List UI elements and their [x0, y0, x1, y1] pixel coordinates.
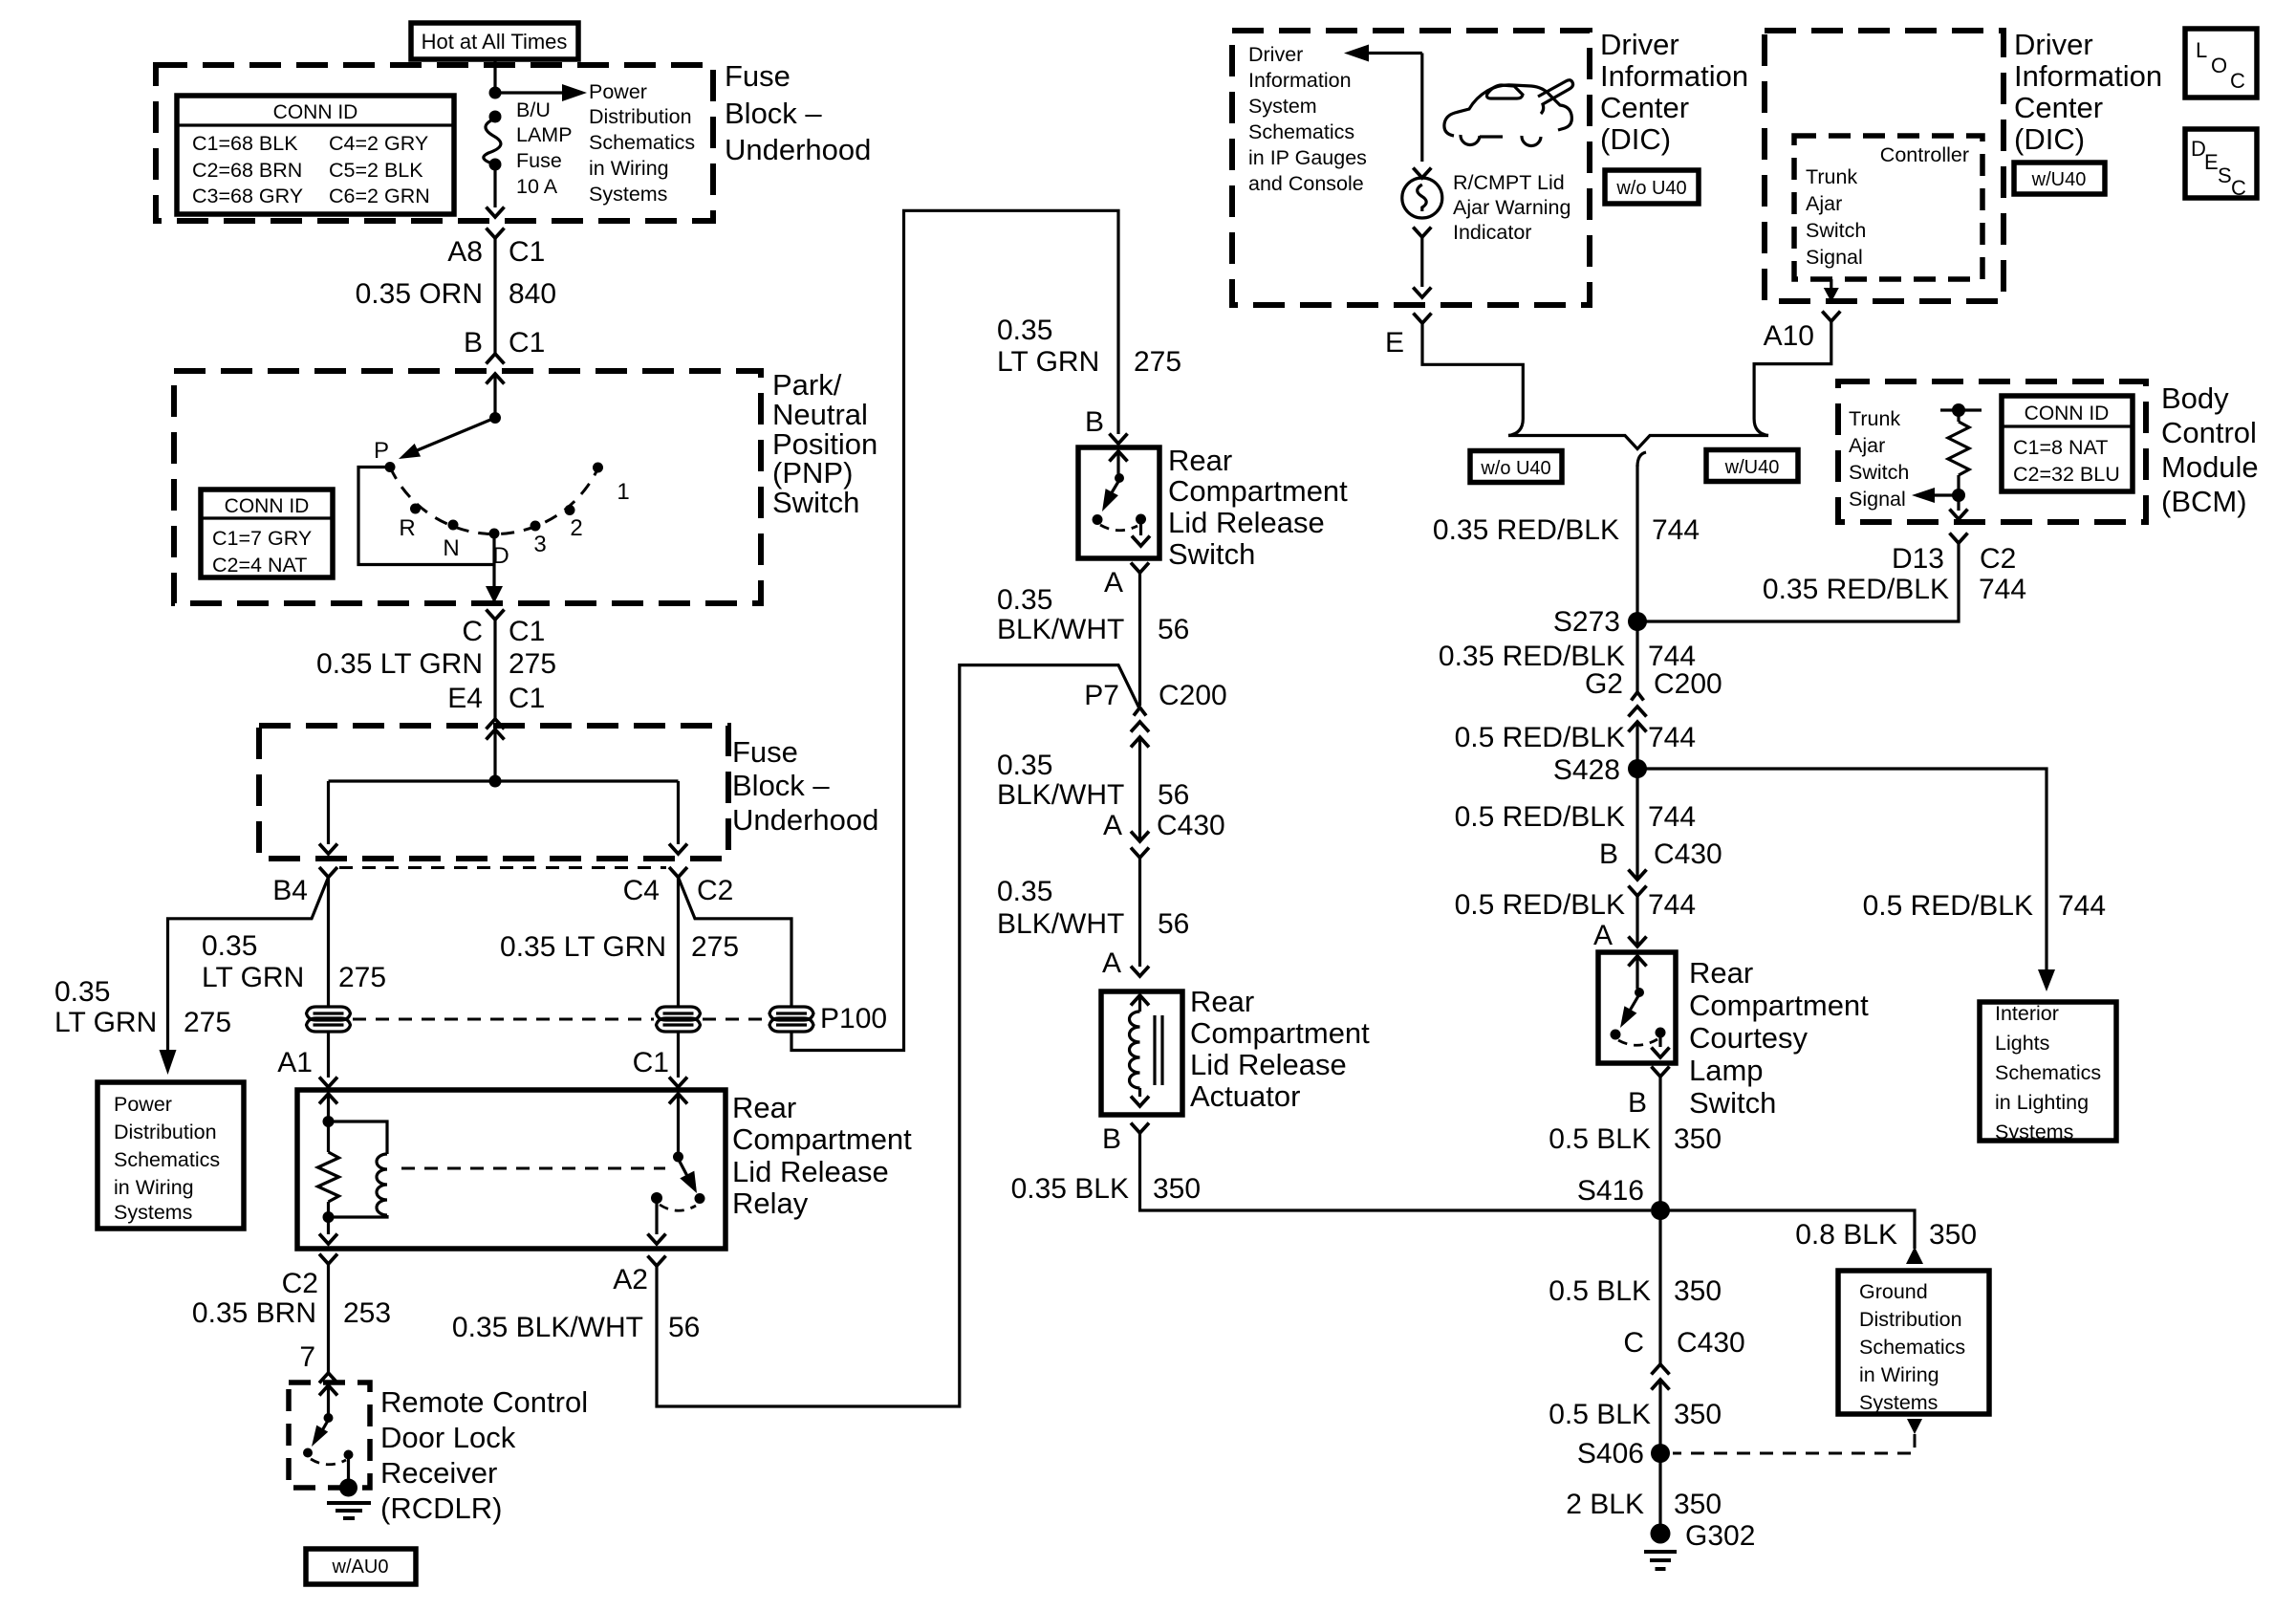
switch contact right [1136, 514, 1146, 525]
svg-text:Module: Module [2161, 450, 2259, 484]
svg-text:Rear: Rear [1689, 956, 1753, 990]
svg-text:C200: C200 [1159, 680, 1227, 711]
switch travel arc dashed [1100, 525, 1137, 531]
fuse block underhood dashed box (top) [156, 65, 713, 221]
svg-text:Control: Control [2161, 416, 2257, 449]
svg-text:0.35 BLK/WHT: 0.35 BLK/WHT [452, 1312, 643, 1343]
svg-text:0.5 RED/BLK: 0.5 RED/BLK [1455, 801, 1625, 833]
switch arm [1111, 480, 1119, 494]
fork at actuator A [1131, 967, 1149, 977]
svg-text:350: 350 [1674, 1489, 1722, 1520]
svg-text:S273: S273 [1553, 606, 1620, 638]
splice S416 [1651, 1201, 1670, 1220]
svg-text:744: 744 [1979, 574, 2026, 605]
switch entry arrow [1110, 451, 1128, 462]
RCDLR switch pivot node [324, 1413, 334, 1423]
svg-text:Hot at All Times: Hot at All Times [422, 30, 568, 54]
relay switch travel arc dashed [660, 1205, 696, 1210]
PNP pivot node [489, 412, 501, 424]
svg-text:Power: Power [589, 80, 647, 103]
wire grommet to relay C1 [677, 1032, 680, 1078]
switch box Rear Compartment Courtesy Lamp Switch [1598, 952, 1676, 1063]
svg-text:B/U: B/U [516, 98, 551, 121]
connector P100 dashed line [353, 1018, 654, 1021]
PNP contact D [489, 529, 500, 539]
svg-text:Rear: Rear [732, 1091, 796, 1124]
svg-text:0.35 LT GRN: 0.35 LT GRN [316, 648, 483, 680]
svg-text:Information: Information [2014, 59, 2162, 93]
fuse block 2 right leg [677, 781, 680, 844]
splice S406 [1651, 1444, 1670, 1463]
svg-text:744: 744 [2058, 890, 2106, 922]
branch wire to power distribution reference [168, 878, 329, 1053]
fork below DIC E [1414, 314, 1432, 324]
ground distribution bottom arrow [1907, 1419, 1922, 1434]
svg-text:B: B [464, 327, 483, 359]
svg-text:BLK/WHT: BLK/WHT [997, 779, 1124, 811]
wire C200 to C430 [1138, 737, 1141, 841]
svg-text:Door Lock: Door Lock [380, 1421, 516, 1454]
S428 branch to interior lights [1637, 769, 2047, 969]
BCM dashed box [1838, 381, 2146, 522]
svg-text:3: 3 [533, 532, 546, 557]
svg-text:B: B [1085, 406, 1104, 438]
svg-text:Ajar: Ajar [1806, 192, 1842, 215]
svg-text:Underhood: Underhood [725, 133, 871, 166]
svg-text:S406: S406 [1577, 1438, 1644, 1469]
actuator box Rear Compartment Lid Release Actuator [1101, 991, 1182, 1115]
svg-text:P100: P100 [820, 1003, 887, 1034]
svg-text:C1: C1 [509, 327, 545, 359]
svg-text:744: 744 [1648, 722, 1696, 753]
svg-text:A8: A8 [447, 236, 483, 268]
svg-text:Distribution: Distribution [589, 105, 692, 128]
LOC key box [2185, 29, 2257, 98]
svg-text:(DIC): (DIC) [1600, 122, 1671, 156]
option box w/o U40 (DIC) [1605, 170, 1699, 204]
svg-text:Lamp: Lamp [1689, 1054, 1764, 1087]
fork into PNP switch [487, 354, 505, 364]
fork into fuse block 2 [487, 719, 505, 729]
svg-text:0.35: 0.35 [202, 930, 257, 962]
car icon [1444, 85, 1571, 136]
relay output wire to A2 [655, 1203, 658, 1234]
svg-text:CONN ID: CONN ID [225, 495, 310, 517]
merge brace w/o U40 w/U40 [1508, 419, 1523, 436]
svg-text:Compartment: Compartment [1689, 989, 1869, 1022]
courtesy switch contact right [1656, 1028, 1666, 1038]
svg-text:Systems: Systems [114, 1201, 192, 1224]
svg-text:744: 744 [1648, 801, 1696, 833]
svg-text:C1=7 GRY: C1=7 GRY [212, 527, 312, 550]
RCDLR ground stem [347, 1455, 350, 1483]
fork below DIC2 A10 [1822, 312, 1840, 322]
svg-text:2 BLK: 2 BLK [1566, 1489, 1644, 1520]
svg-text:CONN ID: CONN ID [273, 101, 358, 123]
svg-text:C1: C1 [633, 1047, 669, 1078]
relay C1 entry arrow [669, 1094, 687, 1104]
svg-text:Switch: Switch [1849, 461, 1909, 484]
svg-text:C3=68 GRY: C3=68 GRY [192, 185, 303, 207]
svg-text:0.5 BLK: 0.5 BLK [1549, 1275, 1651, 1307]
svg-text:P: P [374, 438, 389, 464]
grommet P100 [769, 1007, 813, 1032]
svg-text:10 A: 10 A [516, 175, 558, 198]
courtesy switch contact left [1611, 1030, 1621, 1040]
svg-text:Fuse: Fuse [732, 735, 798, 769]
DIC internal arrow to reference [1420, 54, 1423, 163]
fuse block 2 entry arrow [487, 729, 505, 740]
junction node at fuse feed [489, 87, 502, 99]
svg-text:0.5 RED/BLK: 0.5 RED/BLK [1455, 722, 1625, 753]
svg-text:C1=8 NAT: C1=8 NAT [2013, 436, 2108, 459]
svg-text:C430: C430 [1677, 1327, 1745, 1359]
svg-text:0.8 BLK: 0.8 BLK [1795, 1219, 1897, 1251]
svg-text:Distribution: Distribution [1859, 1308, 1962, 1331]
svg-text:C2=4 NAT: C2=4 NAT [212, 554, 307, 577]
svg-text:0.35: 0.35 [997, 876, 1052, 907]
DIC w/U40 dashed box [1765, 31, 2004, 301]
reference box Interior Lights Schematics in Lighting Systems [1980, 1002, 2116, 1143]
svg-text:(DIC): (DIC) [2014, 122, 2085, 156]
wire C430 to courtesy switch [1635, 896, 1638, 947]
svg-text:275: 275 [691, 931, 739, 963]
svg-text:LT GRN: LT GRN [54, 1007, 157, 1038]
CONN ID table (PNP switch) [201, 490, 333, 577]
svg-text:Park/: Park/ [772, 368, 842, 402]
grommet on C4 wire [657, 1007, 701, 1032]
svg-text:System: System [1248, 95, 1317, 118]
RCDLR dashed box [289, 1382, 370, 1488]
svg-text:0.35 ORN: 0.35 ORN [356, 278, 483, 310]
svg-text:0.35: 0.35 [997, 750, 1052, 781]
wire C4 down to relay C1 [677, 878, 680, 1008]
svg-text:C430: C430 [1157, 810, 1225, 841]
svg-text:Lid Release: Lid Release [732, 1155, 889, 1188]
PNP contact N [448, 520, 459, 531]
svg-text:Switch: Switch [1168, 537, 1255, 571]
wire indicator to DIC edge [1420, 237, 1423, 287]
E wire to merge [1422, 323, 1523, 419]
wire S428 to C430 [1635, 769, 1638, 880]
svg-text:Compartment: Compartment [1190, 1016, 1370, 1050]
fork below BCM D13 [1950, 533, 1968, 544]
connector C2 fork B4 [319, 867, 337, 878]
svg-text:Driver: Driver [2014, 28, 2093, 61]
connector fork below fuse block [487, 229, 505, 239]
connector dashed line between forks [339, 866, 666, 869]
relay box Rear Compartment Lid Release Relay [297, 1090, 726, 1249]
PNP wiper arm to P [415, 418, 495, 451]
svg-text:B4: B4 [272, 875, 308, 906]
fork below switch A [1131, 563, 1149, 574]
actuator solenoid coil [1130, 1012, 1140, 1088]
svg-text:E: E [1385, 327, 1404, 359]
svg-text:Lid Release: Lid Release [1190, 1048, 1347, 1081]
svg-text:275: 275 [509, 648, 556, 680]
svg-text:Rear: Rear [1190, 985, 1254, 1018]
svg-text:Distribution: Distribution [114, 1121, 217, 1143]
svg-text:C1: C1 [509, 236, 545, 268]
svg-text:Remote Control: Remote Control [380, 1385, 588, 1419]
switch contact left [1093, 514, 1103, 525]
fork below relay A2 [648, 1256, 666, 1267]
svg-text:Power: Power [114, 1093, 172, 1116]
relay A1 exit arrow to C2 [319, 1234, 337, 1245]
reference box Power Distribution Schematics in Wiring Systems [97, 1082, 244, 1229]
svg-text:in Lighting: in Lighting [1995, 1091, 2089, 1114]
svg-text:N: N [443, 535, 459, 561]
wire segment 0.35 LT GRN 275 (PNP to fuse block) [493, 620, 496, 719]
svg-text:S: S [2218, 163, 2232, 187]
S416 branch 0.8 BLK 350 to ground distribution [1660, 1210, 1915, 1249]
wire P100 to riser [791, 210, 1118, 1050]
fork at switch B [1110, 434, 1128, 445]
svg-text:Information: Information [1248, 69, 1352, 92]
svg-text:w/U40: w/U40 [2031, 169, 2087, 190]
fuse block 2 internal feed wire [493, 729, 496, 781]
svg-text:(BCM): (BCM) [2161, 485, 2247, 518]
svg-text:253: 253 [343, 1297, 391, 1329]
PNP contact 1 [593, 463, 603, 473]
PNP feed wire to pivot [493, 374, 496, 418]
svg-text:C2: C2 [1980, 543, 2016, 575]
svg-text:Driver: Driver [1600, 28, 1679, 61]
svg-text:350: 350 [1674, 1275, 1722, 1307]
svg-text:0.35: 0.35 [54, 976, 110, 1008]
svg-text:744: 744 [1648, 889, 1696, 921]
svg-text:(PNP): (PNP) [772, 456, 853, 490]
option box w/o U40 (merge) [1470, 451, 1562, 483]
svg-text:S416: S416 [1577, 1175, 1644, 1207]
svg-text:350: 350 [1153, 1173, 1201, 1205]
svg-text:Lights: Lights [1995, 1032, 2049, 1055]
svg-text:Neutral: Neutral [772, 398, 868, 431]
connector C430 chevrons (right) [1629, 870, 1647, 881]
dashed link S406 to ground distribution [1673, 1434, 1915, 1453]
courtesy switch arm [1630, 994, 1639, 1011]
PNP contact 2 [565, 505, 575, 515]
R/CMPT lid ajar warning indicator lamp [1402, 178, 1442, 218]
wire S273 to C200 [1635, 621, 1638, 692]
svg-text:Controller: Controller [1880, 143, 1969, 166]
wire from Hot at All Times into fuse block [493, 59, 496, 91]
BCM arrow to Signal [1933, 493, 1959, 496]
svg-text:350: 350 [1674, 1123, 1722, 1155]
svg-text:Compartment: Compartment [1168, 474, 1348, 508]
power feed box "Hot at All Times" [411, 23, 578, 59]
CONN ID table (fuse block underhood) [177, 96, 454, 214]
svg-text:C4: C4 [623, 875, 660, 906]
svg-text:G2: G2 [1585, 668, 1623, 700]
svg-text:Trunk: Trunk [1849, 407, 1900, 430]
svg-text:Switch: Switch [1806, 219, 1866, 242]
splice S273 [1628, 612, 1647, 631]
wire grommet to relay [327, 1032, 330, 1078]
svg-text:S428: S428 [1553, 754, 1620, 786]
svg-text:Fuse: Fuse [516, 149, 562, 172]
svg-text:Signal: Signal [1849, 488, 1906, 511]
svg-text:w/o U40: w/o U40 [1615, 178, 1686, 199]
svg-text:in Wiring: in Wiring [1859, 1363, 1939, 1386]
RCDLR contact right [344, 1450, 354, 1460]
svg-text:Systems: Systems [1859, 1391, 1938, 1414]
svg-text:in Wiring: in Wiring [589, 157, 669, 180]
RCDLR contact left [303, 1448, 313, 1458]
controller exit arrow [1830, 279, 1832, 290]
svg-text:w/o U40: w/o U40 [1480, 458, 1550, 479]
courtesy switch pivot node [1635, 988, 1644, 997]
actuator entry arrow [1131, 995, 1149, 1006]
svg-text:Receiver: Receiver [380, 1456, 497, 1490]
svg-text:R/CMPT Lid: R/CMPT Lid [1453, 171, 1565, 194]
PNP P-to-D bracket wire [358, 468, 494, 565]
svg-text:LT GRN: LT GRN [202, 962, 304, 993]
svg-text:Schematics: Schematics [1248, 120, 1354, 143]
svg-text:C2: C2 [282, 1268, 318, 1299]
svg-text:E: E [2204, 150, 2219, 174]
relay coil top node [323, 1116, 335, 1127]
switch box Rear Compartment Lid Release Switch [1078, 447, 1159, 558]
svg-text:C1: C1 [509, 616, 545, 647]
relay switch arm [679, 1159, 688, 1176]
svg-text:Center: Center [2014, 91, 2103, 124]
svg-text:in IP Gauges: in IP Gauges [1248, 146, 1367, 169]
svg-text:P7: P7 [1084, 680, 1119, 711]
connector C430 chevrons (ground) [1652, 1364, 1670, 1375]
fuse block 2 internal bus [329, 779, 679, 782]
svg-text:Rear: Rear [1168, 444, 1232, 477]
svg-text:Block –: Block – [732, 769, 830, 802]
wire C200 to S428 [1635, 722, 1638, 769]
svg-text:G302: G302 [1685, 1520, 1755, 1552]
CONN ID table (BCM) [2002, 396, 2133, 491]
svg-text:w/AU0: w/AU0 [332, 1557, 389, 1578]
reference box Ground Distribution Schematics in Wiring Systems [1838, 1271, 1989, 1414]
svg-text:C200: C200 [1654, 668, 1722, 700]
svg-text:0.5 RED/BLK: 0.5 RED/BLK [1863, 890, 2033, 922]
svg-text:A1: A1 [277, 1047, 313, 1078]
svg-text:B: B [1102, 1123, 1121, 1155]
svg-text:A: A [1593, 920, 1613, 951]
svg-text:56: 56 [1158, 779, 1189, 811]
svg-text:Courtesy: Courtesy [1689, 1021, 1809, 1055]
wire 2 BLK 350 to G302 [1658, 1453, 1661, 1530]
relay switch contact right [695, 1193, 705, 1204]
svg-text:Schematics: Schematics [1859, 1336, 1965, 1359]
wire A to C200 [1138, 573, 1141, 706]
svg-text:C430: C430 [1654, 838, 1722, 870]
svg-text:Systems: Systems [1995, 1121, 2073, 1143]
BCM pull-up resistor [1957, 410, 1960, 422]
wire 0.5 BLK 350 to S416 [1658, 1077, 1661, 1210]
svg-text:350: 350 [1674, 1399, 1722, 1430]
svg-text:Information: Information [1600, 59, 1748, 93]
connector C430 chevrons [1131, 832, 1149, 842]
fork below PNP [487, 610, 505, 620]
wire S416 to C430 (ground) [1658, 1210, 1661, 1364]
svg-text:0.5 BLK: 0.5 BLK [1549, 1123, 1651, 1155]
svg-text:Actuator: Actuator [1190, 1079, 1300, 1113]
PNP contact P [385, 462, 396, 472]
courtesy switch entry arrow [1629, 956, 1647, 967]
PNP contact R [410, 504, 421, 514]
svg-text:Schematics: Schematics [589, 131, 695, 154]
svg-text:E4: E4 [447, 683, 483, 714]
svg-text:A: A [1102, 947, 1121, 979]
svg-text:A10: A10 [1764, 320, 1814, 352]
relay coil branch [329, 1121, 388, 1154]
svg-text:0.35 BLK: 0.35 BLK [1011, 1173, 1129, 1205]
svg-text:LT GRN: LT GRN [997, 346, 1099, 378]
RCDLR entry arrow [319, 1385, 337, 1396]
wire 0.35 RED/BLK 744 (BCM to S273) [1637, 543, 1959, 621]
svg-text:A: A [1104, 567, 1123, 599]
BCM resistor top bar [1940, 408, 1982, 411]
svg-text:in Wiring: in Wiring [114, 1176, 194, 1199]
svg-text:(RCDLR): (RCDLR) [380, 1491, 502, 1525]
svg-text:R: R [399, 515, 415, 541]
svg-text:O: O [2211, 54, 2227, 77]
svg-text:56: 56 [668, 1312, 700, 1343]
relay switch contact left [651, 1192, 662, 1204]
fuse block 2 left leg [327, 781, 330, 844]
wire segment 0.35 ORN 840 [493, 238, 496, 354]
connector C200 chevrons (right) [1632, 692, 1644, 701]
RCDLR travel arc dashed [311, 1459, 346, 1465]
svg-text:C: C [1623, 1327, 1644, 1359]
svg-text:Switch: Switch [1689, 1086, 1776, 1120]
switch pivot node [1115, 473, 1124, 483]
svg-text:0.35: 0.35 [997, 315, 1052, 346]
fork below relay C2 [319, 1254, 337, 1265]
svg-text:w/U40: w/U40 [1724, 457, 1780, 478]
svg-text:B: B [1628, 1087, 1647, 1119]
wire merge to S273 [1635, 465, 1638, 621]
relay coil bottom node [323, 1211, 335, 1223]
svg-text:BLK/WHT: BLK/WHT [997, 614, 1124, 645]
svg-text:Ajar Warning: Ajar Warning [1453, 196, 1570, 219]
svg-text:Underhood: Underhood [732, 803, 878, 837]
svg-text:7: 7 [299, 1341, 315, 1373]
ground G302 [1651, 1524, 1671, 1544]
option box w/U40 (merge) [1706, 450, 1798, 482]
fork below courtesy switch B [1652, 1067, 1670, 1078]
fuse block 2 internal node [489, 775, 502, 788]
grommet on B4 wire [307, 1007, 351, 1032]
svg-text:Compartment: Compartment [732, 1122, 912, 1156]
svg-text:Ajar: Ajar [1849, 434, 1885, 457]
connector C2 fork C4 [669, 867, 687, 878]
svg-text:CONN ID: CONN ID [2025, 403, 2110, 425]
actuator exit wire [1138, 1088, 1141, 1097]
svg-text:C: C [2230, 69, 2245, 93]
svg-text:L: L [2196, 38, 2207, 62]
PNP exit wire with arrow [492, 565, 495, 590]
wire 0.35 BLK 350 to S416 [1140, 1133, 1652, 1210]
svg-text:C: C [2231, 176, 2246, 200]
svg-text:C2=32 BLU: C2=32 BLU [2013, 463, 2120, 486]
DIC w/o U40 dashed box [1232, 31, 1590, 305]
option box w/AU0 [306, 1549, 416, 1584]
fuse element squiggle [484, 119, 501, 164]
wire from fuse to block edge [493, 164, 496, 207]
svg-text:Ground: Ground [1859, 1280, 1928, 1303]
DESC key box [2185, 129, 2257, 198]
svg-text:C: C [462, 616, 483, 647]
fuse B/U LAMP 10A node top [489, 111, 502, 123]
relay armature dashed link [401, 1167, 665, 1170]
